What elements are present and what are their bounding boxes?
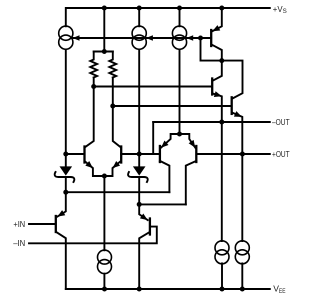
svg-text:+OUT: +OUT [272,149,290,159]
svg-text:–IN: –IN [13,238,25,248]
svg-text:S: S [283,8,287,15]
svg-text:–OUT: –OUT [272,117,290,127]
svg-text:+IN: +IN [13,219,25,229]
svg-text:EE: EE [279,288,286,295]
svg-text:+V: +V [273,4,283,14]
